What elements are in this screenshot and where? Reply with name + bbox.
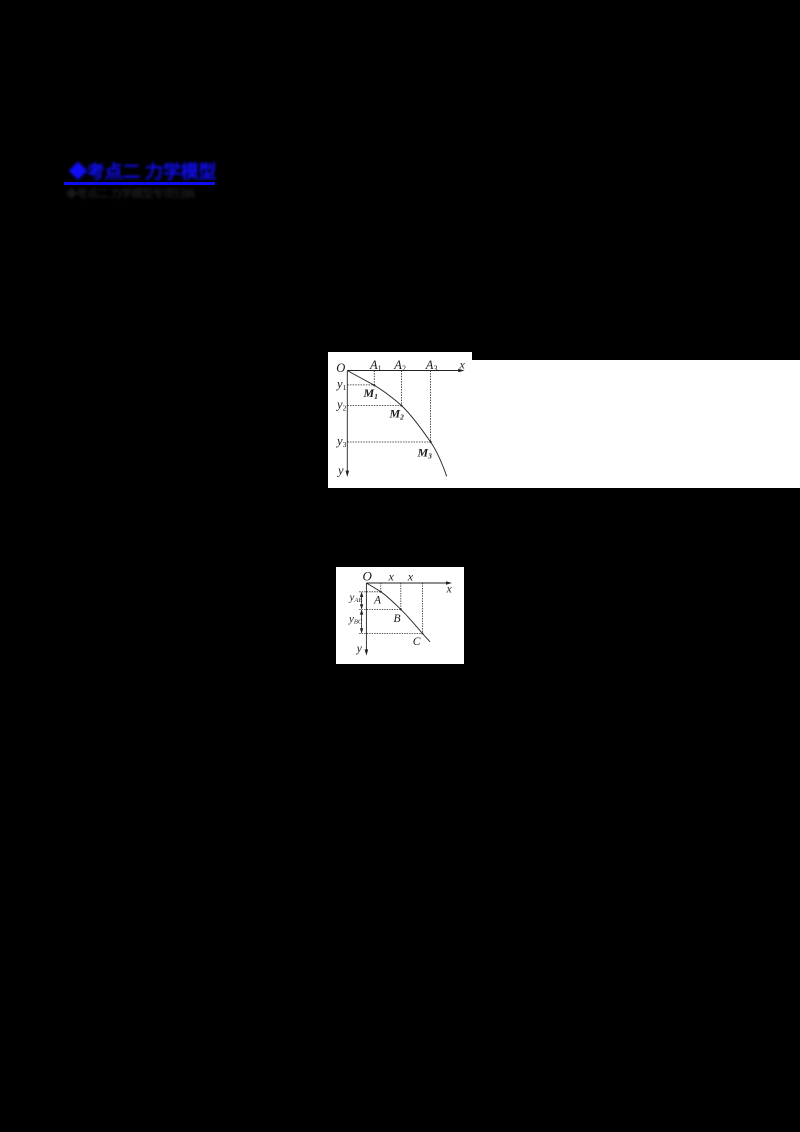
y-axis [365,583,367,651]
svg-text:x: x [459,358,466,372]
svg-text:y: y [336,463,344,477]
y-axis [346,371,348,472]
x-axis [347,371,459,477]
figure 1 white canvas extension (right) [471,360,800,488]
dashed verticals at A,B,C [380,583,382,592]
svg-text:A: A [373,594,382,606]
figure 2 [336,567,464,664]
svg-text:x: x [407,569,414,583]
svg-text:O: O [336,361,345,375]
point dots M1 M2 M3 [373,384,375,386]
faint gray subtitle under heading [66,185,195,201]
x-axis arrowhead [446,581,452,584]
dashed verticals A1,A2,A3 [347,371,430,443]
svg-text:x: x [388,569,395,583]
figure 1 [328,352,800,488]
figure 1 white canvas (opaque part) [328,352,472,488]
y-axis arrowhead [365,649,369,655]
curve (trajectory) [366,583,430,642]
dimension line yBC [361,610,363,632]
point dots A B C [380,591,382,593]
svg-text:y: y [356,643,363,655]
dashed horizontals at A,B,C [359,591,381,593]
dashed horizontals y1,y2,y3 [347,384,374,386]
svg-text:O: O [363,569,373,584]
dimension line yAB [361,593,363,609]
x-axis [366,582,447,584]
heading: blue bold underlined title [64,158,215,185]
curve (trajectory) [347,371,446,477]
x-axis arrowhead [458,369,464,373]
figure 2 white canvas [336,567,464,664]
svg-text:C: C [413,636,421,648]
y-axis arrowhead [346,471,350,477]
svg-text:B: B [394,613,401,625]
svg-text:x: x [446,582,453,596]
